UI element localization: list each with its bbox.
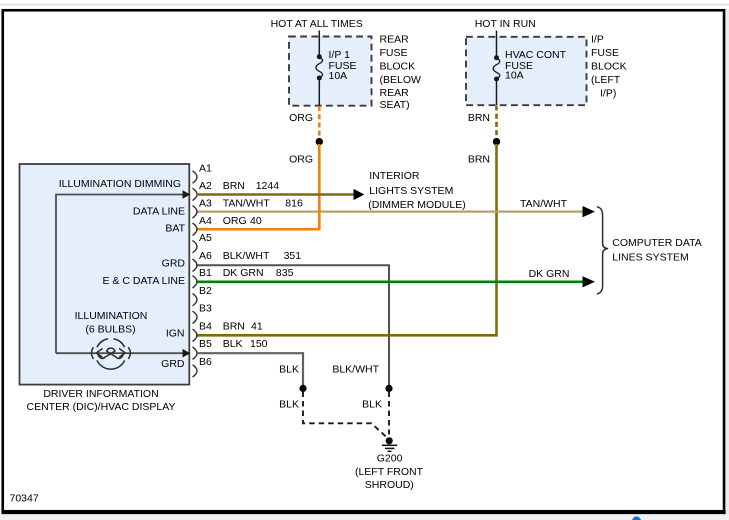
internal wire through lamp to B5 with arrow: [56, 352, 183, 354]
svg-text:ILLUMINATION: ILLUMINATION: [75, 310, 148, 322]
svg-text:ORG: ORG: [289, 153, 313, 165]
svg-text:BLK: BLK: [279, 364, 299, 376]
svg-text:GRD: GRD: [161, 358, 185, 370]
pin arcs A1-B6: [193, 171, 198, 377]
wire A6 BLK/WHT 351 (drawn under crossing wires): [196, 265, 389, 385]
svg-text:B2: B2: [199, 285, 212, 297]
lamp L1 illumination bulbs symbol: [91, 339, 130, 369]
svg-text:70347: 70347: [10, 492, 39, 504]
svg-text:835: 835: [276, 267, 294, 279]
svg-text:SEAT): SEAT): [380, 99, 410, 111]
svg-text:(BELOW: (BELOW: [380, 74, 422, 86]
svg-text:REAR: REAR: [380, 33, 410, 45]
svg-text:E & C DATA LINE: E & C DATA LINE: [103, 275, 185, 287]
svg-text:1244: 1244: [256, 180, 280, 192]
wire A2 BRN 1244: [196, 193, 354, 196]
svg-text:ORG: ORG: [223, 215, 247, 227]
svg-text:BRN: BRN: [468, 153, 490, 165]
svg-text:ILLUMINATION DIMMING: ILLUMINATION DIMMING: [59, 178, 181, 190]
wire B1 DK GRN 835: [196, 280, 583, 283]
right gray strip outside frame: [726, 9, 729, 520]
DIC module box: [20, 164, 190, 385]
svg-text:(DIMMER MODULE): (DIMMER MODULE): [368, 199, 465, 211]
wire F2 feed (black vertical): [496, 31, 498, 106]
svg-text:B4: B4: [199, 320, 212, 332]
wire BRN solid to pin B4: [196, 144, 497, 335]
fuse block F2 box: [466, 37, 587, 105]
svg-text:TAN/WHT: TAN/WHT: [223, 197, 271, 209]
svg-text:BLK: BLK: [223, 338, 243, 350]
splice dot S1 on ORG: [316, 138, 323, 145]
svg-text:DATA LINE: DATA LINE: [133, 205, 185, 217]
brace: [597, 207, 608, 294]
wire A3 TAN/WHT 816 (drawn under crossing verticals): [196, 211, 583, 213]
wire BLK dashed to ground: [303, 392, 388, 439]
svg-text:BLK: BLK: [279, 399, 299, 411]
svg-text:(6 BULBS): (6 BULBS): [85, 323, 135, 335]
svg-text:BRN: BRN: [223, 180, 245, 192]
svg-text:DK GRN: DK GRN: [223, 267, 264, 279]
wire ORG dashed segment below F1: [318, 106, 321, 138]
svg-text:B5: B5: [199, 338, 212, 350]
fuse F2 symbol: [494, 55, 499, 60]
splice dot S2 on BRN: [493, 138, 500, 145]
fuse F1 symbol: [317, 54, 322, 59]
svg-text:816: 816: [285, 197, 303, 209]
svg-text:41: 41: [251, 320, 263, 332]
top gray hairline: [0, 4, 729, 6]
svg-text:IGN: IGN: [166, 328, 185, 340]
svg-text:B6: B6: [199, 356, 212, 368]
svg-text:150: 150: [250, 338, 268, 350]
svg-text:B3: B3: [199, 303, 212, 315]
wire B5 BLK 150: [196, 353, 303, 385]
svg-text:FUSE: FUSE: [380, 47, 408, 59]
internal wire to A2 with arrow: [56, 195, 183, 354]
svg-text:REAR: REAR: [380, 87, 410, 99]
svg-text:SHROUD): SHROUD): [365, 479, 414, 491]
svg-text:A5: A5: [199, 232, 212, 244]
pin labels A1-B6: [199, 163, 212, 368]
svg-text:COMPUTER DATA: COMPUTER DATA: [612, 237, 701, 249]
svg-text:LINES SYSTEM: LINES SYSTEM: [612, 252, 688, 264]
svg-text:A1: A1: [199, 163, 212, 175]
svg-text:CENTER (DIC)/HVAC DISPLAY: CENTER (DIC)/HVAC DISPLAY: [27, 401, 176, 413]
svg-text:DK GRN: DK GRN: [529, 268, 570, 280]
svg-text:10A: 10A: [329, 70, 348, 82]
blue dot bottom scroll: [632, 516, 641, 520]
svg-text:40: 40: [250, 215, 262, 227]
arrow to interior lights: [354, 189, 365, 200]
svg-text:BRN: BRN: [223, 320, 245, 332]
svg-text:DRIVER INFORMATION: DRIVER INFORMATION: [43, 388, 158, 400]
splice dot S3: [299, 385, 306, 392]
svg-text:HOT IN RUN: HOT IN RUN: [475, 18, 536, 30]
svg-text:I/P): I/P): [600, 87, 616, 99]
svg-text:INTERIOR: INTERIOR: [369, 170, 420, 182]
svg-text:BLK: BLK: [362, 399, 382, 411]
svg-text:I/P: I/P: [591, 34, 604, 46]
svg-text:BLOCK: BLOCK: [380, 61, 416, 73]
frame bottom thick edge: [2, 510, 726, 514]
svg-text:A4: A4: [199, 215, 212, 227]
svg-text:HOT AT ALL TIMES: HOT AT ALL TIMES: [271, 18, 363, 30]
svg-text:G200: G200: [377, 453, 403, 465]
svg-text:B1: B1: [199, 267, 212, 279]
arrow TAN/WHT to computer data: [583, 206, 596, 217]
arrow DK GRN to computer data: [583, 276, 596, 287]
svg-text:TAN/WHT: TAN/WHT: [520, 198, 568, 210]
svg-text:A2: A2: [199, 180, 212, 192]
svg-text:BLOCK: BLOCK: [591, 61, 627, 73]
wire F1 feed (black vertical): [318, 31, 320, 106]
svg-text:10A: 10A: [505, 70, 524, 82]
svg-text:(LEFT: (LEFT: [591, 74, 621, 86]
svg-text:BRN: BRN: [468, 112, 490, 124]
wire BRN dashed segment below F2: [495, 106, 498, 139]
svg-text:ORG: ORG: [289, 112, 313, 124]
svg-text:FUSE: FUSE: [591, 47, 619, 59]
svg-text:(LEFT FRONT: (LEFT FRONT: [355, 466, 424, 478]
svg-text:351: 351: [284, 250, 302, 262]
wire BLK dashed vertical to ground: [388, 392, 390, 435]
svg-text:GRD: GRD: [162, 257, 186, 269]
ground G200 symbol: [386, 437, 393, 444]
svg-text:BAT: BAT: [165, 222, 185, 234]
svg-text:BLK/WHT: BLK/WHT: [223, 250, 270, 262]
svg-text:LIGHTS SYSTEM: LIGHTS SYSTEM: [369, 185, 453, 197]
wire ORG solid to pin A4: [196, 144, 319, 229]
svg-text:A3: A3: [199, 197, 212, 209]
bottom gray strip outside frame: [0, 514, 729, 520]
splice dot S4: [385, 385, 392, 392]
svg-text:BLK/WHT: BLK/WHT: [332, 364, 379, 376]
fuse block F1 box: [289, 37, 372, 106]
svg-text:I/P 1: I/P 1: [329, 49, 351, 61]
svg-text:A6: A6: [199, 250, 212, 262]
